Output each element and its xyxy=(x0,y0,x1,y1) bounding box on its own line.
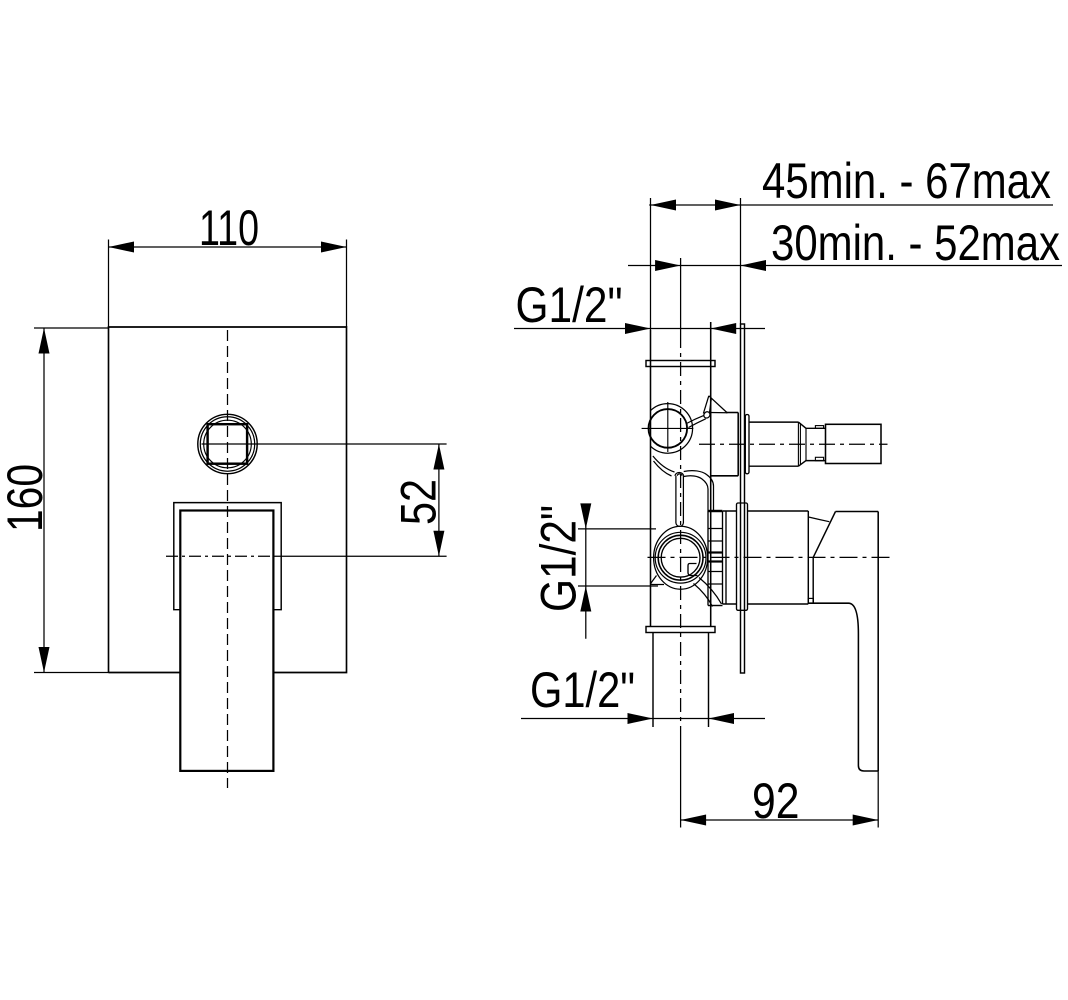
svg-text:45min. - 67max: 45min. - 67max xyxy=(762,153,1051,209)
svg-text:160: 160 xyxy=(0,464,53,532)
svg-text:G1/2": G1/2" xyxy=(516,277,623,333)
svg-text:30min. - 52max: 30min. - 52max xyxy=(771,215,1060,271)
svg-text:110: 110 xyxy=(199,200,259,256)
svg-text:G1/2": G1/2" xyxy=(530,662,635,718)
svg-text:52: 52 xyxy=(391,479,447,525)
svg-text:92: 92 xyxy=(752,773,800,829)
svg-text:G1/2": G1/2" xyxy=(531,505,587,612)
